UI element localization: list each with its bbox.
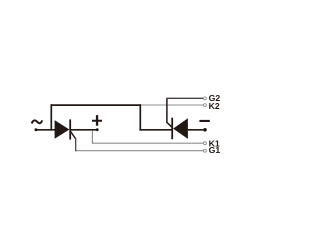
terminal circle G1 <box>203 149 206 152</box>
svg-text:G1: G1 <box>209 145 221 155</box>
gate G2 vertical lead <box>166 98 168 123</box>
thyristor TH1 cathode bar <box>69 119 71 139</box>
thyristor TH2 cathode bar <box>171 118 173 140</box>
minus node dot <box>203 128 207 132</box>
thyristor TH1 gate lead <box>71 131 76 139</box>
wire TH1 cathode to plus node <box>70 129 97 131</box>
gate G1 vertical lead <box>76 138 77 151</box>
AC input terminal dot <box>35 128 38 131</box>
terminal circle K2 <box>203 104 206 107</box>
wire TH2 anode to minus node <box>188 129 205 131</box>
top bus wire <box>51 104 142 106</box>
wire from AC terminal to thyristor TH1 anode <box>36 129 55 131</box>
plus sign <box>92 115 102 126</box>
svg-text:K2: K2 <box>209 101 220 111</box>
terminal circle K1 <box>203 142 206 145</box>
G2 lead wire <box>166 97 203 99</box>
K1 lead wire <box>92 142 203 144</box>
wire riser to thyristor TH2 cathode <box>139 104 141 130</box>
minus sign <box>199 120 209 122</box>
plus node dot <box>96 128 99 131</box>
K2 lead wire <box>141 104 204 106</box>
G1 lead wire <box>76 150 203 152</box>
wire to TH2 cathode <box>139 129 172 131</box>
AC input tilde symbol <box>32 120 43 123</box>
thyristor TH1 triangle <box>55 120 70 139</box>
thyristor TH2 gate lead <box>167 122 172 127</box>
terminal circle G2 <box>203 97 206 100</box>
K1 drop lead <box>92 130 94 143</box>
thyristor TH2 triangle <box>173 118 188 139</box>
wire riser at node A <box>50 104 52 130</box>
